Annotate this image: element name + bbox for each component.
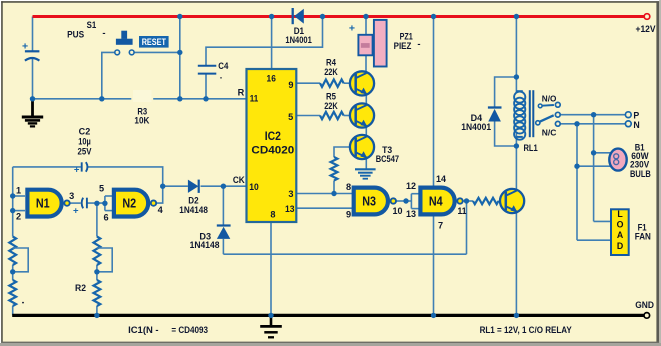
- wire R5 to T2 base: [344, 115, 356, 117]
- wire C3 to N2 inputs: [87, 202, 105, 204]
- relay armature: [540, 115, 554, 121]
- svg-text:-: -: [102, 28, 105, 39]
- wire S1 left leg: [102, 52, 115, 98]
- svg-text:5: 5: [99, 183, 104, 193]
- svg-text:BC547: BC547: [376, 154, 399, 164]
- wire T2 emitter to T3 collector: [365, 126, 367, 137]
- diode D1: [292, 8, 294, 24]
- wire reset row (left of R3 gap): [33, 98, 132, 100]
- NAND gate N4: [420, 188, 454, 215]
- preset tap R2: [97, 248, 112, 272]
- wire T4 emitter to ground rail: [515, 211, 517, 315]
- svg-text:IC1(N -: IC1(N -: [128, 325, 159, 335]
- svg-text:IC2: IC2: [265, 131, 281, 143]
- wire N4 output down: [466, 201, 468, 254]
- svg-text:1N4001: 1N4001: [285, 35, 311, 45]
- resistor R5: [320, 112, 344, 119]
- junction dot pin3: [331, 191, 336, 196]
- wire reset row (right of R3 gap) to IC2 pin 11: [153, 98, 246, 100]
- transistor T2: [350, 103, 374, 127]
- svg-text:12: 12: [406, 181, 416, 191]
- svg-text:22K: 22K: [324, 67, 338, 77]
- wire RESET vertical from +12V rail: [179, 17, 181, 99]
- relay RL1 coil: [516, 90, 522, 92]
- junction dots ground rail: [94, 313, 99, 318]
- svg-text:1N4001: 1N4001: [461, 122, 491, 132]
- wire T3 base resistor to pin3 node: [333, 181, 335, 194]
- svg-text:CD4020: CD4020: [251, 144, 294, 156]
- svg-text:16: 16: [267, 73, 276, 83]
- svg-text:+: +: [349, 23, 355, 35]
- svg-text:3: 3: [69, 191, 74, 201]
- svg-text:N/C: N/C: [542, 127, 557, 137]
- wire N2 output to D2 row: [156, 186, 163, 203]
- svg-text:N1: N1: [36, 197, 50, 211]
- junction dot N2 out: [160, 184, 165, 189]
- +12V terminal: [644, 14, 650, 20]
- IC IC2 CD4020: [247, 69, 297, 222]
- svg-text:5: 5: [288, 112, 293, 122]
- wire N4 output to base resistor: [463, 200, 473, 202]
- svg-text:S1: S1: [87, 20, 97, 30]
- wire N1 input rail: [12, 167, 14, 237]
- wire relay top bracket to D4: [495, 77, 517, 107]
- resistor T4 base: [473, 198, 499, 204]
- wire IC2 pin 16 to +12V rail: [271, 17, 273, 70]
- junction dots rail: [177, 14, 182, 19]
- GND terminal: [644, 313, 650, 319]
- svg-text:11: 11: [250, 94, 259, 104]
- switch S1 push button: [115, 50, 120, 55]
- svg-text:4: 4: [158, 205, 164, 215]
- svg-text:6: 6: [103, 212, 108, 222]
- wire base resistor to T4: [499, 200, 506, 202]
- capacitor C1: [25, 50, 40, 52]
- svg-text:9: 9: [346, 210, 351, 220]
- transistor T3: [350, 135, 374, 159]
- wire D4 bottom bracket: [495, 122, 517, 147]
- svg-text:11: 11: [458, 206, 467, 216]
- wire IC2 pin 9 to R4: [296, 82, 320, 84]
- svg-text:A: A: [617, 230, 624, 240]
- svg-text:C2: C2: [79, 127, 91, 137]
- svg-text:1: 1: [16, 186, 21, 196]
- junction dots C3 node: [94, 201, 99, 206]
- svg-text:8: 8: [346, 182, 351, 192]
- resistor R3 (faded body gap): [133, 90, 152, 102]
- wire C4 lower: [205, 74, 207, 99]
- transistor T4: [500, 189, 524, 213]
- svg-text:+: +: [74, 164, 80, 175]
- wire relay armature row to P: [560, 114, 625, 116]
- capacitor C4: [198, 65, 217, 67]
- ground symbol left: [31, 100, 34, 116]
- svg-text:10: 10: [393, 206, 403, 216]
- wire N4 input bracket: [410, 194, 412, 209]
- relay N/C contact: [555, 121, 560, 126]
- wire N1 output to C3: [70, 202, 81, 204]
- svg-text:N4: N4: [429, 194, 443, 208]
- junction dots N1 inputs: [10, 193, 15, 198]
- svg-text:P: P: [633, 110, 639, 120]
- wire bulb lower lead: [577, 165, 611, 167]
- svg-text:RESET: RESET: [142, 37, 167, 47]
- svg-text:PIEZ: PIEZ: [394, 41, 412, 51]
- svg-text:N: N: [633, 120, 639, 130]
- wire bulb upper lead: [594, 152, 611, 154]
- wire IC1 power line pins 14-7: [433, 17, 435, 316]
- svg-text:R2: R2: [75, 283, 86, 293]
- wire S1 right leg: [134, 51, 180, 53]
- svg-text:10µ: 10µ: [78, 137, 91, 147]
- svg-text:+: +: [22, 40, 28, 52]
- wire T3 emitter to ground: [365, 157, 367, 169]
- NAND gate N2: [114, 190, 148, 217]
- resistor R4: [320, 80, 344, 87]
- wire neutral drop to bulb and load: [576, 124, 578, 240]
- wire IC2 pin 3 row: [296, 193, 352, 195]
- svg-text:FAN: FAN: [635, 232, 651, 242]
- wire N1 input stubs: [13, 195, 25, 197]
- bulb B1: [609, 149, 626, 171]
- transistor T1: [350, 71, 374, 95]
- svg-text:R: R: [238, 87, 245, 97]
- relay pole contact: [536, 121, 540, 125]
- wire C4 top to +12V rail: [206, 17, 323, 66]
- svg-text:RL1: RL1: [523, 143, 537, 153]
- ground rail: [12, 314, 643, 317]
- diode D4: [488, 106, 502, 108]
- svg-text:1N4148: 1N4148: [190, 240, 220, 250]
- svg-text:14: 14: [436, 174, 447, 184]
- wire D2 row: [163, 185, 188, 187]
- resistor left chain upper: [9, 237, 16, 266]
- relay N/O contact: [538, 104, 542, 108]
- +12V rail: [33, 15, 644, 18]
- wire D3 column: [222, 186, 224, 225]
- svg-text:C4: C4: [218, 61, 228, 71]
- svg-text:7: 7: [438, 220, 443, 230]
- resistor left chain lower: [9, 280, 16, 306]
- preset tap left: [13, 248, 29, 272]
- svg-text:10K: 10K: [134, 116, 150, 126]
- junction dots contact rows: [591, 112, 596, 117]
- wire C2 row: [13, 166, 81, 168]
- wire relay N/C row to N: [560, 123, 625, 125]
- junction dot CK: [221, 184, 226, 189]
- svg-text:10: 10: [249, 182, 259, 192]
- svg-text:N/O: N/O: [542, 94, 557, 104]
- svg-text:-: -: [417, 39, 420, 50]
- wire relay coil bottom to T4 collector: [515, 132, 517, 191]
- wire piezo PZ1 feed: [365, 17, 367, 35]
- wire N3 output to N4 inputs: [397, 200, 407, 202]
- junction dot S1 to reset vertical: [177, 50, 182, 55]
- terminal P: [625, 112, 631, 118]
- diode D2: [188, 180, 199, 193]
- capacitor C3: [82, 198, 83, 209]
- svg-text:3: 3: [288, 189, 293, 199]
- NAND gate N1: [27, 190, 61, 217]
- diode D3: [217, 224, 231, 226]
- wire phase drop to bulb and load: [593, 115, 595, 222]
- junction dot N4 out: [464, 198, 469, 203]
- svg-text:+: +: [73, 205, 79, 216]
- wire D3 anode row: [223, 253, 466, 255]
- wire +12V drop to C1 and ground node: [32, 17, 34, 52]
- junction dot N3 out: [403, 198, 408, 203]
- wire relay feed from +12V rail: [515, 17, 517, 93]
- svg-text:D: D: [617, 241, 623, 251]
- relay RL1 core: [529, 90, 531, 137]
- svg-text:25V: 25V: [78, 146, 92, 156]
- svg-text:GND: GND: [635, 300, 654, 311]
- svg-text:13: 13: [406, 209, 416, 219]
- RESET label: [139, 36, 169, 48]
- capacitor C2: [81, 162, 83, 171]
- load box F1: [611, 209, 629, 255]
- wire R2 junction to lower zigzag: [12, 265, 14, 280]
- wire T3 base: [334, 147, 356, 157]
- wire N2 input bracket: [104, 196, 106, 211]
- resistor R2 chain upper: [94, 237, 101, 266]
- junction dots reset row: [30, 96, 35, 101]
- stray mark: [22, 302, 24, 304]
- svg-text:9: 9: [288, 80, 293, 90]
- wire IC2 pin 8 to ground rail: [270, 222, 272, 315]
- svg-text:RL1 = 12V, 1 C/O RELAY: RL1 = 12V, 1 C/O RELAY: [480, 325, 572, 335]
- piezo PZ1: [374, 20, 387, 67]
- svg-text:13: 13: [285, 204, 295, 214]
- svg-text:PUS: PUS: [67, 30, 84, 40]
- svg-text:2: 2: [16, 212, 21, 222]
- junction dots preset taps: [10, 269, 15, 274]
- svg-text:N2: N2: [122, 197, 136, 211]
- wire R4 to T1 base: [344, 82, 356, 84]
- svg-text:N3: N3: [362, 194, 376, 208]
- svg-text:= CD4093: = CD4093: [171, 325, 208, 335]
- resistor R2 chain lower: [94, 280, 101, 306]
- svg-text:8: 8: [270, 209, 275, 219]
- NAND gate N3: [354, 188, 388, 215]
- svg-text:CK: CK: [233, 175, 245, 185]
- svg-text:BULB: BULB: [630, 169, 651, 179]
- junction dots relay: [514, 74, 519, 79]
- wire IC2 pin 13 row: [296, 207, 352, 209]
- junction dots bulb: [591, 150, 596, 155]
- svg-text:·: ·: [220, 73, 223, 83]
- svg-text:22K: 22K: [324, 101, 338, 111]
- svg-text:O: O: [617, 219, 624, 229]
- svg-text:L: L: [617, 209, 623, 219]
- ground symbol T3: [355, 168, 376, 170]
- wire T1 emitter to T2 collector: [365, 94, 367, 106]
- ground symbol bottom: [270, 317, 273, 325]
- svg-text:+12V: +12V: [636, 23, 657, 34]
- wire IC2 pin 5 to R5: [296, 115, 320, 117]
- wire R2 column upper: [96, 203, 98, 236]
- terminal N: [625, 121, 631, 127]
- resistor T3 base (R6): [331, 157, 338, 181]
- svg-text:1N4148: 1N4148: [179, 205, 208, 215]
